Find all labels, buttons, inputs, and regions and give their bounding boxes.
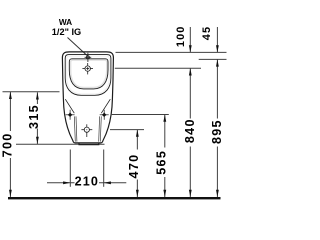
svg-text:565: 565 — [155, 150, 169, 175]
svg-text:470: 470 — [127, 154, 141, 179]
svg-text:840: 840 — [183, 118, 197, 143]
svg-text:210: 210 — [75, 174, 99, 188]
svg-text:315: 315 — [27, 104, 41, 129]
svg-text:895: 895 — [210, 119, 224, 144]
svg-text:700: 700 — [1, 132, 15, 157]
svg-text:45: 45 — [201, 26, 213, 40]
svg-text:1/2" IG: 1/2" IG — [52, 27, 81, 37]
svg-text:100: 100 — [175, 25, 187, 47]
svg-text:WA: WA — [59, 17, 72, 27]
